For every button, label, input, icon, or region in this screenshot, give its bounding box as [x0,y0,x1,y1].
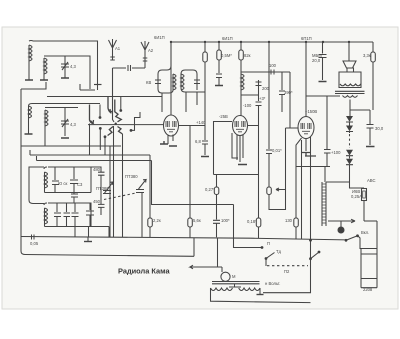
svg-text:5,6к: 5,6к [193,218,201,223]
svg-text:+150В: +150В [305,109,317,114]
svg-text:+140: +140 [196,120,206,125]
svg-text:3,3к: 3,3к [363,53,371,58]
svg-text:450: 450 [93,199,101,204]
svg-text:4,3: 4,3 [70,122,76,127]
svg-text:20,0: 20,0 [312,58,321,63]
svg-text:А2: А2 [148,48,154,53]
svg-text:130: 130 [285,218,293,223]
svg-text:н Вольт.: н Вольт. [265,281,280,286]
svg-text:0,25А: 0,25А [351,194,362,199]
svg-text:0,05: 0,05 [30,241,39,246]
svg-text:30,0: 30,0 [375,126,384,131]
svg-text:Радиола Кама: Радиола Кама [118,267,170,276]
svg-text:0,18*: 0,18* [247,219,257,224]
svg-text:АВС: АВС [367,178,375,183]
svg-text:КВ: КВ [146,80,151,85]
svg-text:390*: 390* [284,90,293,95]
svg-text:ПТ380: ПТ380 [96,186,109,191]
svg-text:П: П [267,241,270,246]
svg-text:П2: П2 [284,269,290,274]
svg-text:-25В: -25В [219,114,228,119]
svg-text:6И1П: 6И1П [222,36,233,41]
svg-text:+100: +100 [331,150,341,155]
svg-text:6П1П: 6П1П [301,36,312,41]
svg-text:4,3: 4,3 [70,64,76,69]
svg-text:220в: 220в [363,287,373,292]
svg-text:200: 200 [262,86,270,91]
svg-text:М: М [232,274,236,279]
svg-text:Тд: Тд [276,249,282,254]
svg-text:0,5М*: 0,5М* [221,53,232,58]
svg-text:С3: С3 [77,182,83,187]
svg-text:480: 480 [93,167,101,172]
svg-text:ПТ380: ПТ380 [125,174,138,179]
svg-text:0,01*: 0,01* [272,148,282,153]
svg-text:+3*: +3* [259,96,266,101]
svg-text:100: 100 [269,63,277,68]
svg-text:Ю ск: Ю ск [58,181,67,186]
svg-text:Вкл.: Вкл. [361,230,369,235]
svg-text:100*: 100* [221,218,230,223]
svg-text:-100: -100 [243,103,252,108]
svg-text:6И1П: 6И1П [154,35,165,40]
svg-text:82к: 82к [244,53,251,58]
svg-text:0,27*: 0,27* [205,187,215,192]
svg-text:А1: А1 [115,46,121,51]
svg-text:6,8: 6,8 [195,139,201,144]
svg-text:2,2к: 2,2к [153,218,161,223]
